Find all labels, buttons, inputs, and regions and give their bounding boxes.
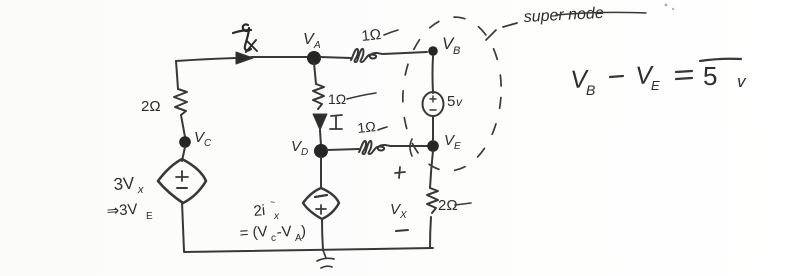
supernode pointer dash 2 <box>503 23 517 27</box>
supernode dashed ellipse <box>398 14 507 174</box>
stroke through node <box>556 12 646 15</box>
wire node C to source <box>182 147 185 161</box>
wire resistor to node B <box>383 52 427 54</box>
label VE <box>444 132 461 152</box>
current arrow I (down) <box>313 114 327 130</box>
voltage source 5v (circle) <box>423 92 444 116</box>
node E dot <box>427 140 439 152</box>
label =3VE <box>106 201 153 222</box>
resistor 1ohm middle horizontal (scribble) <box>359 141 391 154</box>
svg-text:-V: -V <box>276 223 292 241</box>
plus sign Vx <box>395 167 405 178</box>
wire node A down <box>314 63 316 84</box>
source plus sign <box>176 171 188 181</box>
label VC <box>194 129 212 149</box>
svg-text:~: ~ <box>270 197 275 207</box>
svg-text:2Ω: 2Ω <box>141 98 161 115</box>
supernode pointer dash 1 <box>486 30 496 40</box>
dependent source 2ix (diamond) <box>303 188 339 219</box>
wire resistor to node E <box>391 145 428 147</box>
label tail stroke 2ohm <box>455 203 471 205</box>
label ix <box>233 24 257 52</box>
current arrow ix <box>236 52 253 64</box>
wire node D right <box>327 149 359 150</box>
label VB <box>442 34 460 57</box>
wire 5v to node E <box>432 116 434 141</box>
source plus sign <box>316 205 326 214</box>
node A dot <box>307 51 321 65</box>
stray pen specks <box>665 4 668 7</box>
svg-text:v: v <box>456 95 463 109</box>
5v plus sign <box>430 96 436 102</box>
label 1ohm middle-h <box>357 118 377 136</box>
svg-text:3V: 3V <box>113 174 136 194</box>
svg-text:super node: super node <box>523 5 604 26</box>
svg-text:A: A <box>313 40 321 51</box>
source minus mark <box>315 195 327 197</box>
svg-text:1Ω: 1Ω <box>361 26 382 45</box>
svg-text:⇒3V: ⇒3V <box>106 201 138 220</box>
label tail stroke <box>347 93 376 99</box>
svg-text:): ) <box>301 223 306 240</box>
node B dot <box>428 46 438 56</box>
node C dot <box>179 136 191 148</box>
svg-text:5: 5 <box>447 93 455 110</box>
node D dot <box>314 144 328 158</box>
wire source 2 to bottom <box>322 219 323 250</box>
dependent source 3Vx (diamond) <box>158 159 206 203</box>
svg-text:1Ω: 1Ω <box>328 91 346 107</box>
label super node <box>523 5 604 26</box>
5v minus sign <box>430 109 436 111</box>
source minus sign <box>177 187 187 189</box>
svg-text:x: x <box>137 184 144 196</box>
label I <box>330 115 342 129</box>
wire source to bottom <box>182 202 184 251</box>
svg-text:x: x <box>273 211 280 222</box>
equation equals <box>676 71 692 79</box>
label 3Vx <box>113 174 144 196</box>
wire node D to source 2 <box>320 157 322 188</box>
svg-text:2i: 2i <box>253 202 266 220</box>
label 2ohm right <box>438 197 458 214</box>
tick mark on wire <box>410 139 412 156</box>
label 2ix <box>253 197 280 222</box>
svg-text:D: D <box>301 147 308 158</box>
svg-text:E: E <box>454 141 461 152</box>
wire node A to resistor 1ohm top <box>320 57 351 58</box>
ground <box>317 250 334 268</box>
resistor 1ohm middle vertical (zigzag) <box>313 84 324 109</box>
svg-text:1Ω: 1Ω <box>357 118 377 136</box>
wire resistor to node C <box>181 115 185 137</box>
label 1ohm top <box>361 26 382 45</box>
wire top-left horizontal <box>176 58 236 61</box>
label VA <box>303 31 321 51</box>
bottom wire <box>184 248 433 252</box>
wire 2ohm to bottom <box>430 217 431 248</box>
svg-text:B: B <box>586 82 595 98</box>
svg-text:E: E <box>651 78 660 93</box>
svg-text:v: v <box>737 72 747 91</box>
svg-text:c: c <box>271 233 276 244</box>
svg-text:E: E <box>146 211 153 222</box>
svg-text:B: B <box>453 45 460 57</box>
resistor 2ohm right (zigzag) <box>427 188 438 213</box>
wire top after ix arrow to node A <box>251 56 308 58</box>
minus sign Vx <box>396 230 408 231</box>
svg-text:X: X <box>399 210 407 221</box>
resistor R 2ohm left (zigzag) <box>174 89 187 115</box>
label 5v <box>447 93 463 110</box>
svg-text:5: 5 <box>703 61 717 91</box>
wire left vertical upper <box>176 61 178 89</box>
svg-text:= (V: = (V <box>239 223 268 242</box>
wire arrow to node D <box>320 130 321 146</box>
label VD <box>291 138 308 158</box>
equation VB - VE = 5v <box>570 61 747 98</box>
wire node E down <box>430 151 433 188</box>
bar over 5 <box>700 59 741 61</box>
label =(Vc-VA) <box>239 223 306 244</box>
label Vx <box>390 201 407 221</box>
label 2ohm left <box>141 98 161 115</box>
equation minus <box>610 76 623 77</box>
resistor 1ohm top (scribble) <box>351 49 383 62</box>
svg-text:C: C <box>204 138 212 149</box>
label 1ohm middle <box>328 91 346 107</box>
wire node B down to 5v source <box>432 56 435 93</box>
